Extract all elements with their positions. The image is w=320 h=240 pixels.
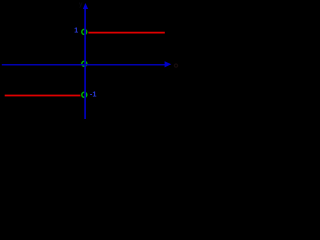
open circle at (0,1) (82, 29, 87, 34)
y-axis (84, 6, 86, 119)
faint x-axis label ghost (174, 64, 177, 67)
x-axis (2, 64, 166, 66)
red segment y=-1 for x<0 (5, 95, 81, 97)
open circle at (0,-1) (82, 92, 87, 97)
y-axis arrowhead (83, 3, 88, 9)
red segment y=1 for x>0 (88, 32, 164, 34)
svg-text:y: y (79, 1, 83, 8)
svg-text:1: 1 (74, 25, 78, 34)
x-axis arrowhead (165, 61, 172, 67)
open circle at origin (82, 61, 87, 66)
svg-text:-1: -1 (90, 89, 97, 98)
